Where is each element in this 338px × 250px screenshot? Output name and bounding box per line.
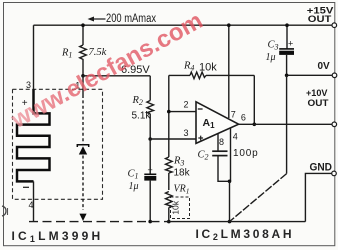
trimmer dashed outline [171,197,190,219]
scan artifact marks left edge [2,206,6,216]
wire: LM399 heater pin 4 lead to ground rail [33,181,35,221]
svg-text:+: + [148,165,153,175]
wire: GND riser to terminal [305,173,331,221]
resistor R4 [169,72,255,124]
wire: 0V rail to terminal [287,74,333,76]
node: 6.95V reference node [81,74,85,78]
svg-text:3: 3 [183,128,188,138]
wire: +15V top rail [34,24,333,26]
capacitor C2 with pin 8 lead [212,134,230,182]
svg-text:IC1LM399H: IC1LM399H [12,229,104,244]
terminal: 0V [332,73,337,78]
svg-text:10k: 10k [199,62,217,74]
zener diode reference of LM399 [77,76,88,221]
current arrow 200 mA max [88,17,106,22]
svg-text:100p: 100p [233,148,258,159]
junction: feedback on output wire [253,123,257,127]
svg-text:OUT: OUT [308,98,329,109]
wire: diagonal from 0V drop to ground rail [230,174,287,222]
wire: op-amp output to +10V OUT terminal [239,123,333,125]
junction: R1 top on +15V rail [81,23,85,27]
wire: left drop from top rail to LM399 heater pin 3 [33,25,35,89]
svg-text:C1: C1 [128,169,139,181]
junction: feedback node at op-amp pin 2 [167,110,171,114]
terminal: GND [332,171,337,176]
terminal: +15V OUT [332,23,337,28]
potentiometer VR1 [166,192,173,222]
wire: 6.95V node to R2 top [83,75,150,77]
junction: VR1 bottom on ground rail [167,220,171,224]
svg-text:C2: C2 [198,150,209,162]
svg-text:www.elecfans.com: www.elecfans.com [6,7,207,134]
svg-text:10k: 10k [171,200,181,214]
svg-text:C3: C3 [268,40,279,52]
wire: pin4 node down to ground rail [229,181,231,221]
svg-text:+: + [288,39,293,49]
svg-text:OUT: OUT [308,14,332,25]
junction: C1 bottom on ground rail [148,220,152,224]
wire: feedback branch from R4 left corner down to pin 2 [169,75,196,139]
wire: bottom ground rail (right section) [168,221,305,223]
svg-text:R4: R4 [183,61,194,73]
junction: C3 bottom / 0V node [285,74,289,78]
terminal: +10V OUT [332,122,337,127]
heater element of LM399 [17,89,50,181]
junction: pin4 / C2 bottom [228,180,232,184]
svg-text:18k: 18k [174,168,191,179]
wire: bottom ground rail (left dashed section) [29,221,168,223]
svg-text:VR1: VR1 [174,184,190,196]
wire: V+ supply drop to op-amp pin 7 [228,25,230,118]
capacitor C3 [279,25,294,75]
svg-text:IC2LM308AH: IC2LM308AH [196,227,295,242]
op-amp A1 [196,102,239,144]
junction: pin4 branch on ground rail [228,220,232,224]
svg-text:6: 6 [241,113,246,123]
svg-text:R3: R3 [173,156,184,168]
wire: 0V vertical drop [286,75,288,173]
junction: V+ drop on +15V rail [227,23,231,27]
svg-text:0V: 0V [318,61,331,72]
junction: C3 top on +15V rail [285,23,289,27]
svg-text:4: 4 [233,132,238,142]
capacitor C1 [144,139,156,222]
svg-text:R1: R1 [61,48,72,60]
junction: R2 bottom / C1 / op-amp pin 3 node [148,137,152,141]
heater minus mark [23,186,29,188]
svg-text:5.1k: 5.1k [132,111,152,122]
svg-text:4: 4 [29,200,34,210]
svg-text:R2: R2 [132,95,143,107]
svg-text:8: 8 [219,137,224,147]
wire: pin 4 drop [230,128,232,182]
svg-text:1μ: 1μ [266,52,276,63]
wire: node to op-amp pin 3 [150,138,196,140]
svg-text:2: 2 [183,100,188,110]
resistor R2 [147,76,154,139]
svg-text:7: 7 [231,109,236,119]
IC1 LM399 dashed package box [13,89,103,199]
resistor R1 [80,25,87,76]
svg-text:200 mAmax: 200 mAmax [106,13,156,25]
svg-text:1μ: 1μ [129,181,139,192]
svg-text:3: 3 [26,80,31,90]
svg-text:GND: GND [310,161,333,173]
resistor R3 [166,139,173,190]
